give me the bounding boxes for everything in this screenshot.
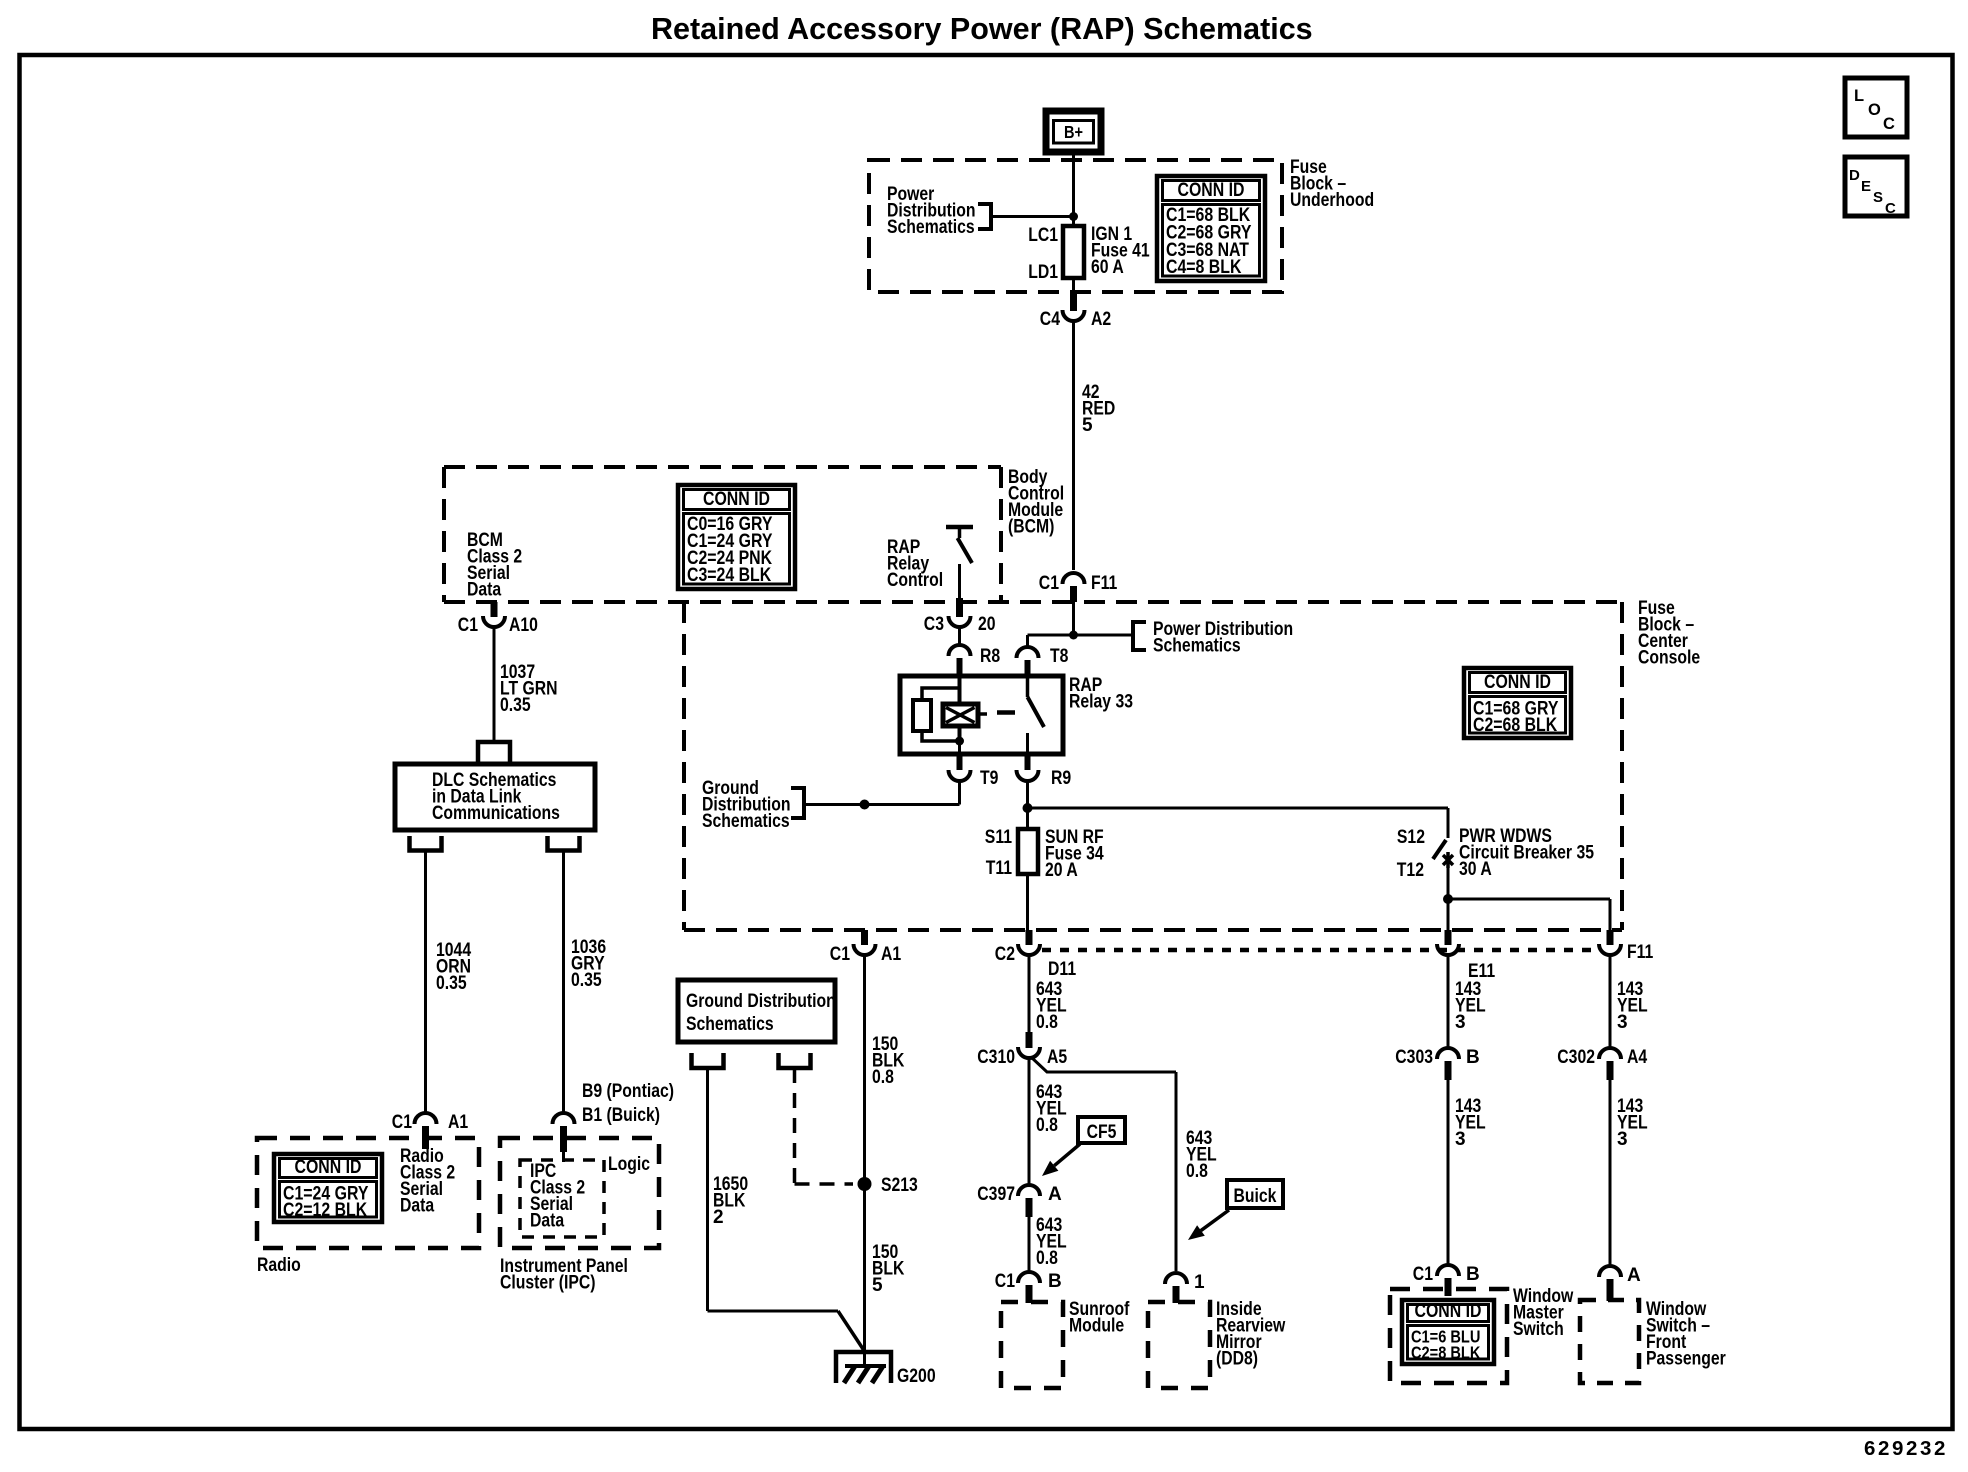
wire 42 RED 5	[1072, 320, 1075, 570]
wire T12 down	[1447, 864, 1450, 899]
svg-text:0.8: 0.8	[1036, 1248, 1058, 1269]
wire 1036 GRY 0.35	[562, 851, 565, 1114]
svg-text:30 A: 30 A	[1459, 859, 1492, 880]
svg-text:Passenger: Passenger	[1646, 1349, 1726, 1370]
svg-text:C2=12 BLK: C2=12 BLK	[283, 1200, 367, 1221]
LOC reference box	[1845, 78, 1907, 137]
callout box CF5	[1078, 1117, 1125, 1143]
bracket ground distribution left	[692, 1053, 724, 1068]
relay coil feed wire from R8	[958, 676, 962, 705]
svg-text:0.8: 0.8	[872, 1067, 894, 1088]
wire C3 to R8	[958, 626, 961, 644]
svg-text:C2=8 BLK: C2=8 BLK	[1411, 1342, 1481, 1362]
connector C1-A10	[491, 602, 498, 617]
svg-text:60 A: 60 A	[1091, 257, 1124, 278]
wire coil to T9	[958, 741, 961, 754]
relay coil parallel loop wire	[922, 688, 960, 700]
svg-text:LC1: LC1	[1028, 225, 1058, 246]
svg-text:A: A	[1627, 1265, 1641, 1286]
svg-text:L: L	[1854, 87, 1864, 105]
wire R9 to fuses S11/S12	[1026, 779, 1029, 808]
svg-text:A1: A1	[448, 1112, 469, 1133]
connector C2-D11	[1026, 930, 1033, 945]
svg-text:T9: T9	[980, 768, 998, 789]
svg-text:T11: T11	[986, 858, 1013, 879]
svg-text:A4: A4	[1627, 1047, 1648, 1068]
svg-text:B+: B+	[1064, 122, 1083, 142]
svg-text:F11: F11	[1091, 573, 1118, 594]
svg-text:Schematics: Schematics	[887, 217, 975, 238]
svg-text:D11: D11	[1048, 959, 1076, 980]
instrument panel cluster dashed box	[500, 1138, 659, 1248]
svg-text:C310: C310	[977, 1047, 1015, 1068]
svg-text:B: B	[1466, 1264, 1480, 1285]
bracket ground distribution (relay)	[791, 788, 804, 818]
arrow Buick to mirror wire	[1201, 1210, 1229, 1231]
svg-text:C: C	[1883, 115, 1895, 133]
svg-text:Schematics: Schematics	[1153, 636, 1241, 657]
junction coil bottom	[955, 737, 964, 746]
wire B+ down to fuse 41	[1072, 152, 1075, 228]
svg-text:B: B	[1048, 1271, 1062, 1292]
ground distribution schematics box	[678, 980, 835, 1042]
svg-text:20 A: 20 A	[1045, 860, 1078, 881]
svg-text:0.8: 0.8	[1186, 1161, 1208, 1182]
connector C1-F11	[1063, 573, 1085, 584]
relay resistor	[913, 700, 931, 731]
svg-text:3: 3	[1617, 1012, 1628, 1033]
svg-text:C3: C3	[924, 614, 944, 635]
svg-text:C1: C1	[1413, 1264, 1434, 1285]
svg-text:C1: C1	[1039, 573, 1060, 594]
connector C310-A5	[1026, 1032, 1033, 1048]
wire 150 BLK to ground	[863, 954, 866, 1366]
wire junction to power distribution bracket	[1074, 634, 1134, 637]
window master switch dashed box	[1390, 1289, 1507, 1383]
connector E11	[1445, 930, 1452, 945]
relay actuator dashed link	[978, 712, 987, 716]
svg-text:CONN ID: CONN ID	[1178, 180, 1245, 201]
svg-text:5: 5	[872, 1275, 883, 1296]
wire 1037 LT GRN 0.35	[493, 626, 496, 742]
circuit breaker 35 PWR WDWS 30 A	[1433, 840, 1446, 859]
IPC logic inner dashed box	[520, 1160, 604, 1237]
svg-text:S11: S11	[985, 827, 1013, 848]
svg-text:(BCM): (BCM)	[1008, 517, 1054, 538]
svg-text:S12: S12	[1397, 827, 1425, 848]
connector pin 1 mirror	[1165, 1273, 1187, 1284]
svg-text:C397: C397	[977, 1184, 1015, 1205]
svg-text:A: A	[1048, 1184, 1062, 1205]
wire bracket to B+ feed	[991, 215, 1074, 218]
bracket DLC to IPC wire	[548, 836, 580, 851]
junction F11 branch	[1069, 631, 1078, 640]
svg-text:CONN ID: CONN ID	[703, 489, 770, 510]
wire 143 YEL 3 (C302 to window switch)	[1609, 1080, 1612, 1266]
connector F11	[1607, 930, 1614, 945]
svg-text:Console: Console	[1638, 648, 1700, 669]
bracket ground distribution right	[779, 1053, 811, 1068]
svg-text:5: 5	[1082, 415, 1093, 436]
wire C310 branch to mirror	[1031, 1057, 1176, 1072]
svg-text:C1: C1	[458, 615, 479, 636]
RAP relay control driver switch symbol in BCM	[946, 525, 973, 530]
connector C303-B	[1437, 1048, 1459, 1059]
svg-text:3: 3	[1617, 1129, 1628, 1150]
RAP relay 33 box	[900, 676, 1063, 754]
connector C4-A2	[1070, 292, 1077, 311]
svg-text:Data: Data	[400, 1196, 435, 1217]
wire 143 YEL 3 (E11 to C303)	[1447, 954, 1450, 1048]
svg-text:S213: S213	[881, 1175, 918, 1196]
fuse F34 SUN RF 20 A	[1018, 829, 1038, 874]
svg-text:Schematics: Schematics	[702, 811, 790, 832]
svg-text:C303: C303	[1395, 1047, 1433, 1068]
window switch front passenger dashed box	[1580, 1300, 1639, 1383]
BCM bottom edge / fuse block center console top edge	[444, 600, 1622, 604]
svg-text:C302: C302	[1557, 1047, 1595, 1068]
arrow CF5 to wire	[1054, 1144, 1080, 1166]
fuse F41 IGN 1 60 A	[1072, 226, 1075, 292]
bracket power distribution (center console)	[1133, 622, 1146, 650]
svg-text:C1: C1	[392, 1112, 413, 1133]
callout box Buick	[1227, 1180, 1283, 1208]
connector C1-B sunroof	[1018, 1272, 1040, 1283]
svg-text:A1: A1	[881, 944, 902, 965]
svg-text:1: 1	[1194, 1272, 1205, 1293]
DLC schematics box	[395, 764, 595, 830]
svg-text:C2=68 BLK: C2=68 BLK	[1473, 715, 1557, 736]
wire S11 fuse column	[1026, 808, 1029, 930]
svg-text:3: 3	[1455, 1012, 1466, 1033]
wire 643 YEL 0.8 (C397 to sunroof)	[1028, 1217, 1031, 1272]
svg-text:C4: C4	[1040, 309, 1061, 330]
splice S213	[858, 1177, 872, 1191]
svg-text:629232: 629232	[1864, 1437, 1948, 1460]
connector id table - fuse block underhood	[1157, 176, 1265, 281]
svg-text:0.35: 0.35	[500, 695, 531, 716]
terminal T8 of fuse block	[1017, 647, 1039, 658]
wire junction to E11	[1447, 899, 1450, 930]
wire 143 YEL 3 (F11 to C302)	[1609, 954, 1612, 1048]
svg-text:CF5: CF5	[1087, 1122, 1117, 1143]
svg-text:20: 20	[978, 614, 996, 635]
wire T9 to ground distribution	[958, 779, 961, 805]
wire 143 YEL 3 (C303 to window master)	[1447, 1080, 1450, 1265]
connector C397-A	[1018, 1185, 1040, 1196]
connector id table - fuse block center console	[1464, 668, 1571, 738]
bracket into DLC box	[478, 742, 510, 764]
svg-text:(DD8): (DD8)	[1216, 1349, 1258, 1370]
connector pin A window switch front passenger	[1599, 1266, 1621, 1277]
svg-text:T12: T12	[1397, 860, 1424, 881]
connector B9/B1 IPC	[553, 1113, 575, 1124]
sunroof module dashed box	[1001, 1302, 1063, 1388]
wire 1650 BLK 2	[706, 1068, 709, 1311]
radio dashed box	[257, 1138, 479, 1248]
svg-text:Ground Distribution: Ground Distribution	[686, 991, 836, 1012]
junction T12 branch	[1443, 894, 1453, 904]
svg-text:Schematics: Schematics	[686, 1014, 774, 1035]
junction R9 branch	[1023, 803, 1033, 813]
relay switch contact from T8	[1026, 676, 1030, 697]
svg-text:F11: F11	[1627, 942, 1654, 963]
body control module (BCM) dashed box	[444, 465, 1001, 469]
svg-text:O: O	[1868, 101, 1881, 119]
wire junction to T8	[1028, 634, 1074, 637]
svg-text:C4=8 BLK: C4=8 BLK	[1166, 257, 1242, 278]
terminal R8 of fuse block	[949, 645, 971, 656]
wire 643 YEL 0.8 (C2 to C310)	[1028, 954, 1031, 1034]
wire F11 to junction	[1072, 602, 1075, 635]
relay switch to R9 wire	[1026, 733, 1029, 754]
connector C302-A4	[1599, 1048, 1621, 1059]
svg-text:G200: G200	[897, 1366, 936, 1387]
bracket power distribution (underhood)	[978, 204, 991, 229]
svg-text:Underhood: Underhood	[1290, 190, 1374, 211]
terminal R9 of fuse block	[1025, 754, 1031, 770]
svg-text:T8: T8	[1050, 646, 1068, 667]
svg-text:Buick: Buick	[1234, 1186, 1277, 1207]
connector C3-20	[956, 598, 963, 617]
svg-text:Communications: Communications	[432, 803, 560, 824]
svg-text:0.35: 0.35	[571, 970, 602, 991]
connector id table - BCM	[678, 485, 795, 589]
in-line connector dotted line C2/E11/F11	[1042, 948, 1600, 953]
svg-text:C1: C1	[830, 944, 851, 965]
svg-text:CONN ID: CONN ID	[1415, 1301, 1482, 1322]
wire 643 YEL 0.8 (C310 to C397)	[1028, 1057, 1031, 1186]
svg-text:2: 2	[713, 1207, 724, 1228]
ground G200 symbol	[836, 1352, 891, 1383]
connector C1-A1 radio	[415, 1113, 437, 1124]
fuse block - underhood dashed box	[869, 160, 1282, 292]
svg-text:LD1: LD1	[1028, 262, 1058, 283]
svg-text:Control: Control	[887, 570, 943, 591]
svg-text:0.8: 0.8	[1036, 1115, 1058, 1136]
connector id table - window master switch	[1402, 1300, 1494, 1364]
relay switch blade	[1028, 697, 1045, 727]
svg-text:E: E	[1861, 178, 1871, 195]
inside rearview mirror dashed box	[1148, 1302, 1210, 1388]
svg-text:Radio: Radio	[257, 1255, 301, 1276]
wire BCM relay control to C3	[958, 564, 961, 601]
svg-text:Cluster (IPC): Cluster (IPC)	[500, 1273, 596, 1294]
svg-text:C1: C1	[995, 1271, 1016, 1292]
svg-text:C: C	[1885, 200, 1896, 217]
relay coil (crossed box)	[958, 704, 962, 741]
fuse block - center console dashed box edges	[682, 602, 686, 930]
junction at fuse 41 input	[1069, 212, 1078, 221]
svg-text:C3=24 BLK: C3=24 BLK	[687, 565, 771, 586]
connector id table - radio	[274, 1154, 382, 1222]
terminal T9 of fuse block	[957, 754, 963, 770]
svg-text:D: D	[1849, 167, 1860, 184]
junction S213 feed	[860, 800, 870, 810]
svg-text:Retained Accessory Power (RAP): Retained Accessory Power (RAP) Schematic…	[651, 12, 1313, 46]
power symbol B+	[1046, 111, 1101, 152]
svg-text:B: B	[1466, 1047, 1480, 1068]
svg-text:Switch: Switch	[1513, 1319, 1564, 1340]
svg-text:A2: A2	[1091, 309, 1111, 330]
connector C1-B window master switch	[1437, 1265, 1459, 1276]
svg-text:B9 (Pontiac): B9 (Pontiac)	[582, 1081, 674, 1102]
bracket DLC to radio wire	[410, 836, 442, 851]
svg-text:A10: A10	[509, 615, 538, 636]
svg-text:Module: Module	[1069, 1316, 1124, 1337]
wire junction to F11 column	[1448, 898, 1610, 901]
DESC reference box	[1845, 157, 1907, 216]
svg-text:S: S	[1873, 189, 1883, 206]
svg-text:3: 3	[1455, 1129, 1466, 1150]
dashed wire ground distribution to S213	[793, 1068, 797, 1184]
svg-text:C2: C2	[995, 944, 1015, 965]
svg-text:R8: R8	[980, 646, 1000, 667]
svg-text:R9: R9	[1051, 768, 1071, 789]
svg-text:A5: A5	[1047, 1047, 1068, 1068]
svg-text:B1 (Buick): B1 (Buick)	[582, 1105, 660, 1126]
svg-text:0.8: 0.8	[1036, 1012, 1058, 1033]
svg-text:CONN ID: CONN ID	[295, 1157, 362, 1178]
svg-text:Relay 33: Relay 33	[1069, 692, 1133, 713]
svg-text:Logic: Logic	[608, 1154, 650, 1175]
svg-text:Data: Data	[467, 580, 502, 601]
wire 1044 ORN 0.35	[424, 851, 427, 1114]
connector C1-A1 console	[861, 930, 868, 945]
svg-text:CONN ID: CONN ID	[1484, 672, 1551, 693]
svg-text:0.35: 0.35	[436, 973, 467, 994]
svg-text:Data: Data	[530, 1211, 565, 1232]
